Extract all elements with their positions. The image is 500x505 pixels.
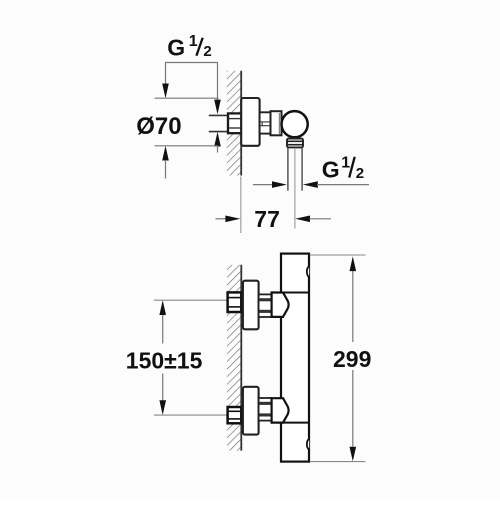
svg-text:1: 1: [341, 155, 350, 172]
svg-text:299: 299: [333, 346, 371, 372]
svg-text:150±15: 150±15: [126, 347, 203, 373]
svg-text:77: 77: [254, 206, 280, 232]
svg-text:Ø70: Ø70: [136, 113, 181, 140]
svg-text:G: G: [322, 156, 340, 182]
svg-text:G: G: [167, 35, 185, 61]
svg-text:1: 1: [189, 33, 198, 50]
svg-text:2: 2: [356, 165, 364, 182]
svg-text:2: 2: [203, 43, 211, 60]
